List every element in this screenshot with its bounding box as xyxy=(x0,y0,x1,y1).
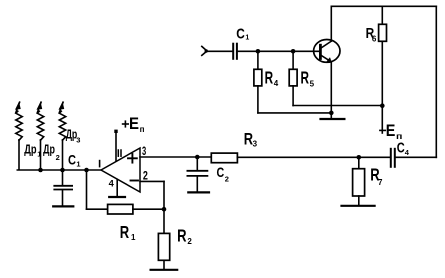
label C1 (left) xyxy=(68,151,81,168)
svg-text:4: 4 xyxy=(405,148,410,157)
label Dr3 xyxy=(66,127,81,145)
feedback wire to R1 xyxy=(87,170,108,209)
svg-text:1: 1 xyxy=(245,34,249,41)
ground under R2 xyxy=(151,269,178,271)
sensor Dr3 xyxy=(59,102,66,169)
svg-text:7: 7 xyxy=(378,178,383,187)
svg-text:3: 3 xyxy=(253,139,258,148)
capacitor C4 xyxy=(391,149,395,167)
svg-text:Др: Др xyxy=(24,142,36,157)
capacitor C2 xyxy=(187,157,207,192)
svg-text:4: 4 xyxy=(109,179,115,189)
node R5 top xyxy=(291,49,296,54)
ground under R7 xyxy=(342,205,375,207)
resistor R1 xyxy=(108,204,133,214)
node bus-Dr3-C1 xyxy=(60,168,65,173)
label C4 xyxy=(397,141,410,157)
svg-text:C: C xyxy=(217,165,225,180)
capacitor C1 (top) xyxy=(233,44,237,59)
svg-text:3: 3 xyxy=(76,136,80,145)
wire rail B (R4 to emitter) xyxy=(258,112,331,114)
ground under pin 4 xyxy=(109,196,125,198)
wire pin2 down xyxy=(140,181,164,209)
svg-text:5: 5 xyxy=(310,79,315,88)
svg-text:C: C xyxy=(236,25,245,42)
wire R3 to C4 xyxy=(237,156,390,158)
wire C1 to base xyxy=(238,50,320,52)
svg-text:4: 4 xyxy=(274,79,279,88)
resistor R2 xyxy=(158,209,169,269)
pin 3 label xyxy=(142,146,146,158)
wire top rail xyxy=(331,5,436,7)
capacitor C1 (left) xyxy=(54,170,72,206)
+Ep stub (right) xyxy=(381,106,383,133)
wire rail A (R5 to +Ep) xyxy=(293,105,382,107)
resistor R6 xyxy=(379,6,387,105)
sensor Dr2 xyxy=(37,102,44,169)
pin 4 ground stub xyxy=(116,179,118,196)
label Dr1 xyxy=(24,142,41,159)
pin 1 label xyxy=(99,161,101,167)
pin 11 label xyxy=(118,150,121,156)
node bus-Dr2 xyxy=(38,168,43,173)
wire R1 to node xyxy=(133,208,164,210)
label R2 xyxy=(177,226,192,246)
label R3 xyxy=(244,130,258,149)
resistor R7 xyxy=(353,157,365,205)
wire C4 to right rail xyxy=(396,6,437,157)
sensor Dr1 xyxy=(16,102,23,169)
svg-text:E: E xyxy=(386,122,396,140)
input terminal (top block) xyxy=(202,46,233,55)
node R4 top xyxy=(256,49,261,54)
svg-text:R: R xyxy=(265,68,274,88)
resistor R3 xyxy=(211,153,237,163)
svg-text:п: п xyxy=(140,124,145,134)
pin 2 label xyxy=(143,170,148,182)
svg-text:2: 2 xyxy=(56,153,60,162)
label R4 xyxy=(265,68,279,88)
op-amp U1 triangle xyxy=(101,148,140,192)
svg-text:2: 2 xyxy=(187,237,192,246)
label C2 xyxy=(217,165,229,183)
pin 4 label xyxy=(109,179,115,189)
pin 11 power stub xyxy=(114,130,117,161)
svg-text:1: 1 xyxy=(37,150,41,159)
ground under emitter xyxy=(321,113,345,119)
svg-text:1: 1 xyxy=(76,159,80,168)
label C1 (top) xyxy=(236,25,249,42)
label +Ep (right) xyxy=(380,122,403,141)
label R5 xyxy=(301,68,315,89)
svg-text:6: 6 xyxy=(372,34,377,43)
svg-text:R: R xyxy=(301,68,310,88)
resistor R4 xyxy=(254,51,262,113)
ground under C2 xyxy=(188,191,209,193)
label +Ep (op-amp) xyxy=(123,115,145,134)
wire input bus xyxy=(17,169,101,171)
svg-text:E: E xyxy=(129,115,139,133)
svg-text:2: 2 xyxy=(225,175,229,184)
node emitter-railB xyxy=(329,111,334,116)
label R1 xyxy=(120,222,136,242)
svg-text:R: R xyxy=(120,222,130,242)
svg-text:Др: Др xyxy=(43,142,55,157)
wire collector up xyxy=(330,6,332,41)
svg-text:C: C xyxy=(68,151,76,167)
node bus-feedback xyxy=(84,168,89,173)
transistor Q1 xyxy=(314,40,340,63)
svg-text:п: п xyxy=(396,131,402,141)
label Dr2 xyxy=(43,142,60,162)
node R1-R2-pin2 xyxy=(162,207,167,212)
wire emitter down xyxy=(330,63,332,113)
wire output pin3 xyxy=(140,156,211,158)
svg-text:1: 1 xyxy=(131,233,136,242)
label R6 xyxy=(366,25,377,43)
node R7 junction xyxy=(357,155,362,160)
label R7 xyxy=(370,165,383,187)
ground under C1 xyxy=(53,205,73,207)
svg-text:R: R xyxy=(177,226,187,246)
resistor R5 xyxy=(289,51,297,105)
node railA-R6 xyxy=(380,103,385,108)
node output-C2 xyxy=(195,155,200,160)
